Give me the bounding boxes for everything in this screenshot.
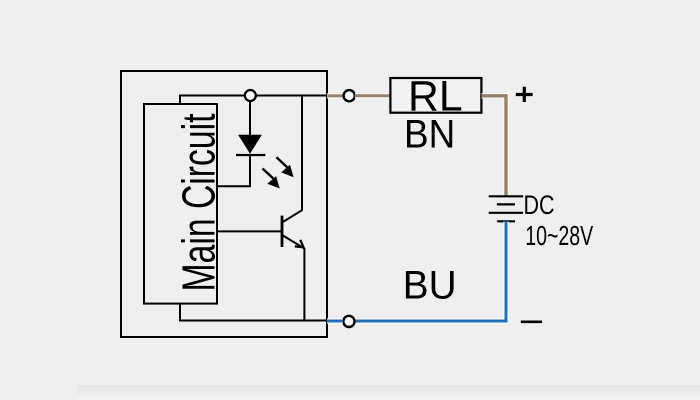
- wire BU blue: outer box to terminal: [327, 318, 343, 323]
- svg-text:BN: BN: [404, 113, 455, 157]
- outer box (sensor outline): [121, 71, 327, 337]
- wire: LED cathode to main circuit: [217, 155, 250, 186]
- svg-text:Main Circuit: Main Circuit: [173, 113, 225, 291]
- svg-text:BU: BU: [403, 263, 457, 307]
- svg-text:10~28V: 10~28V: [525, 220, 593, 251]
- battery B1 DC: [489, 195, 523, 197]
- wire BU blue: battery down to minus rail: [355, 222, 506, 322]
- wire BN brown: RL to battery: [482, 96, 507, 197]
- wire: top (main circuit to outer box edge): [180, 96, 327, 105]
- wire BN brown: terminal to RL: [355, 93, 390, 98]
- light arrow 1: [276, 157, 287, 167]
- transistor Q1 emitter: [282, 235, 304, 321]
- svg-text:DC: DC: [524, 190, 555, 220]
- wire: base: [217, 230, 281, 232]
- transistor Q1 base bar: [281, 216, 284, 247]
- wire: LED anode: [249, 101, 251, 135]
- light arrow 2: [263, 169, 274, 179]
- wire: collector vertical: [282, 96, 302, 223]
- terminal: output (+): [344, 90, 355, 101]
- resistor RL box: [390, 78, 481, 113]
- terminal: 0V: [343, 316, 354, 327]
- label plus: [516, 87, 533, 102]
- label minus: [521, 320, 542, 323]
- node: top junction: [245, 90, 256, 101]
- LED D1: [239, 135, 261, 153]
- main circuit block: [144, 104, 217, 304]
- wire BN brown: outer box to terminal: [327, 93, 343, 98]
- wire: bottom (main circuit to outer box edge): [180, 304, 327, 321]
